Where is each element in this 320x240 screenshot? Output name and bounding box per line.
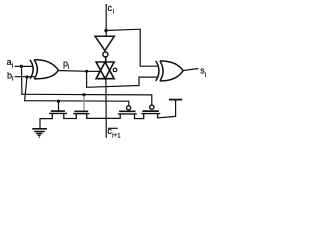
svg-text:i: i [113,8,114,15]
svg-text:i: i [205,72,206,79]
svg-text:i: i [12,76,13,83]
svg-text:i: i [68,64,69,71]
svg-text:i: i [12,63,13,70]
svg-text:1: 1 [117,132,121,139]
